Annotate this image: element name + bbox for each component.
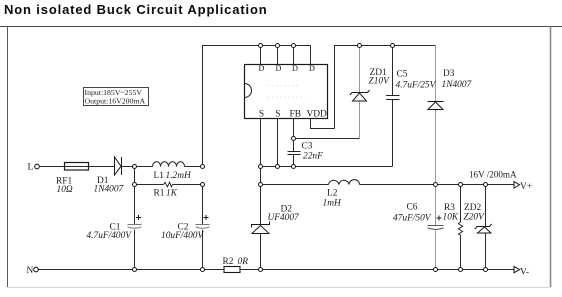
wire: ZD1 top lead (grey) (359, 46, 361, 93)
wire: FB pin drop (293, 119, 295, 152)
svg-text:Output:16V200mA: Output:16V200mA (85, 97, 146, 106)
node S1 (259, 165, 263, 169)
plus sign C1 (136, 215, 141, 220)
svg-text:Z10V: Z10V (369, 77, 391, 87)
wire: S node to switch node (260, 167, 262, 185)
node rail-pin8 (259, 44, 263, 48)
wire: FB to ZD1 horizontal (294, 138, 360, 140)
inductor L1 (153, 162, 185, 167)
plus sign C6 (437, 216, 442, 221)
svg-text:V-: V- (520, 268, 529, 278)
node C6-gnd (434, 268, 438, 272)
svg-text:4.7uF/25V: 4.7uF/25V (396, 81, 437, 91)
arrow V+ (514, 182, 520, 188)
IC U1 notch (245, 84, 252, 98)
node R1-left (133, 183, 137, 187)
wire: C1 bottom lead (134, 230, 136, 270)
node ZD2-out (484, 183, 488, 187)
wire: bottom N line (38, 269, 513, 271)
wire: D2 top lead (260, 185, 262, 226)
wire: R1 branch left (135, 184, 164, 186)
diode D3 (428, 102, 444, 110)
wire: ZD2 bottom lead (485, 233, 487, 270)
wire: C5 bottom lead to source line (392, 100, 394, 167)
capacitor C2 (196, 225, 210, 229)
svg-text:VDD: VDD (307, 110, 328, 120)
svg-text:V+: V+ (520, 182, 532, 192)
node C1-gnd (133, 268, 137, 272)
svg-text:N: N (27, 266, 34, 276)
svg-text:D: D (292, 64, 298, 73)
node C3-S (292, 165, 296, 169)
node D3-out (434, 183, 438, 187)
diode D2 (252, 222, 270, 234)
wire: R3 top lead (460, 185, 462, 223)
node D1-L1 (133, 165, 137, 169)
node R3-gnd (459, 268, 463, 272)
svg-text:47uF/50V: 47uF/50V (393, 214, 432, 224)
resistor R3 (458, 222, 462, 235)
node S2 (276, 165, 280, 169)
wire: C2 column (202, 185, 204, 225)
svg-text:UF4007: UF4007 (268, 213, 301, 223)
node ZD2-gnd (484, 268, 488, 272)
frame bottom border (8, 287, 551, 289)
zener ZD2 (475, 224, 492, 233)
frame top rule (0, 26, 562, 28)
pin labels D D D D (259, 64, 316, 73)
wire: C5 top lead (392, 46, 394, 96)
svg-text:1N4007: 1N4007 (94, 185, 125, 195)
svg-text:10uF/400V: 10uF/400V (161, 231, 204, 241)
node R3-out (459, 183, 463, 187)
wire: source line (S pins) (261, 166, 393, 168)
node rail-pin7 (276, 44, 280, 48)
wire: ZD2 top lead (485, 185, 487, 227)
terminal L (35, 164, 40, 169)
inductor L2 (329, 180, 360, 185)
svg-text:C5: C5 (397, 70, 408, 80)
svg-text:R3: R3 (444, 203, 455, 213)
svg-text:1mH: 1mH (323, 199, 342, 209)
svg-text:D: D (259, 64, 265, 73)
node rail-C5 (391, 44, 395, 48)
capacitor C6 (428, 226, 444, 230)
svg-text:1N4007: 1N4007 (442, 80, 473, 90)
plus sign C2 (204, 215, 209, 220)
fuse RF1 (65, 163, 89, 171)
wire: C2 bottom lead (202, 230, 204, 270)
svg-text:R2: R2 (223, 257, 234, 267)
node C2-gnd (201, 268, 205, 272)
svg-text:1.2mH: 1.2mH (166, 171, 192, 181)
svg-text:C3: C3 (302, 142, 313, 152)
svg-text:22nF: 22nF (303, 152, 323, 162)
svg-text:S: S (259, 110, 264, 120)
capacitor C5 (386, 96, 400, 100)
pin stub D2 (IC top pin 7) (277, 46, 279, 65)
frame right border (550, 27, 552, 288)
wire: D3 top lead (grey) (435, 46, 437, 102)
junction nodes (open circles) (34, 44, 488, 272)
wire: C6 bottom lead (grey) (435, 231, 437, 270)
capacitor C1 (128, 225, 142, 229)
svg-text:R1: R1 (154, 189, 165, 199)
svg-text:D: D (276, 64, 282, 73)
svg-text:1K: 1K (166, 189, 178, 199)
wire: D2 bottom lead (260, 234, 262, 270)
pin stub D3 (IC top pin 6) (293, 46, 295, 65)
svg-text:S: S (275, 110, 280, 120)
wire: C6 top lead (grey) (435, 185, 437, 226)
node FB-C3 (292, 137, 296, 141)
wire: ZD1 bottom lead (grey) (359, 101, 361, 139)
svg-text:4.7uF/400V: 4.7uF/400V (87, 231, 133, 241)
svg-text:L1: L1 (154, 171, 165, 181)
svg-text:L2: L2 (327, 189, 338, 199)
node rail-ZD1 (358, 44, 362, 48)
arrow V- (514, 266, 520, 272)
wire: C3 bottom lead (293, 155, 295, 167)
wire: R3 bottom lead (460, 235, 462, 270)
svg-text:ZD2: ZD2 (464, 203, 481, 213)
svg-text:16V /200mA: 16V /200mA (469, 170, 517, 180)
input/output spec box (84, 88, 149, 106)
pin stub D1 (IC top pin 8) (260, 46, 262, 65)
svg-text:0R: 0R (238, 257, 249, 267)
node L1-right (201, 165, 205, 169)
svg-text:FB: FB (290, 110, 301, 120)
svg-text:10Ω: 10Ω (57, 185, 73, 195)
svg-text:L: L (28, 163, 34, 173)
resistor R1 (164, 182, 173, 187)
svg-text:Z20V: Z20V (464, 213, 486, 223)
wire: node D1 vertical (134, 167, 136, 225)
svg-text:D3: D3 (443, 69, 455, 79)
IC U1 body (245, 65, 328, 119)
zener ZD1 (350, 90, 370, 101)
node switch (259, 183, 263, 187)
frame left border (7, 27, 9, 288)
title (4, 2, 268, 17)
svg-text:C6: C6 (407, 203, 418, 213)
wire: VDD routing (311, 119, 335, 129)
resistor R2 (224, 267, 240, 273)
node rail-pin6 (292, 44, 296, 48)
diode D1 (115, 157, 122, 175)
pin labels S S FB VDD (259, 110, 327, 120)
terminal N (34, 267, 39, 272)
svg-text:D: D (309, 64, 315, 73)
wire: S pin 2 drop (277, 119, 279, 167)
wire: output line (switch node to V+) (261, 184, 329, 186)
wire: top rail A (drain rail) (203, 46, 311, 167)
wire: R1 branch right (173, 184, 203, 186)
wire: L1 right to node (185, 166, 203, 168)
wire: S pin 1 drop (260, 119, 262, 167)
node D2-gnd (259, 268, 263, 272)
wire: output line after L2 (360, 184, 514, 186)
wire: D3 bottom lead (grey) (435, 110, 437, 185)
svg-text:10K: 10K (443, 213, 459, 223)
IC U1 faint interior marks (268, 86, 305, 98)
node R1-right (201, 183, 205, 187)
wire: input L line (39, 166, 152, 168)
capacitor C3 (288, 152, 301, 155)
wire: top rail B (VDD rail) (335, 46, 436, 129)
